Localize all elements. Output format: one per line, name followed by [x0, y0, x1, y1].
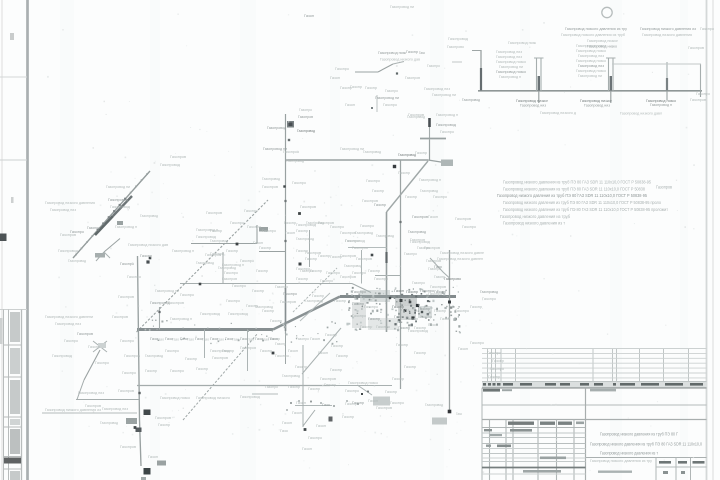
stamp cell dark: [4, 458, 21, 464]
svg-text:Газопровод низ: Газопровод низ: [578, 64, 604, 68]
mid row label left2: [502, 389, 512, 391]
svg-text:Газопр: Газопр: [434, 275, 445, 279]
svg-text:Газопро: Газопро: [275, 285, 288, 289]
H385 east: [330, 385, 392, 387]
svg-text:Газопровод н: Газопровод н: [115, 225, 137, 229]
branch line c: [393, 62, 404, 65]
bottom tail diag: [303, 410, 315, 426]
svg-text:Газопровод: Газопровод: [218, 266, 237, 270]
margin mark mid: [11, 197, 14, 203]
svg-text:Газопро: Газопро: [490, 367, 504, 371]
left margin edge line: [1, 0, 3, 480]
svg-text:Газопровод: Газопровод: [296, 237, 315, 241]
tail cluster dots: [361, 393, 363, 395]
svg-text:Газопр: Газопр: [414, 351, 426, 355]
svg-text:Газопровод н: Газопровод н: [419, 178, 441, 182]
svg-text:Газопровод низкого д: Газопровод низкого д: [540, 111, 577, 115]
svg-text:Газопров: Газопров: [340, 231, 356, 235]
svg-text:Газопро: Газопро: [330, 225, 344, 229]
svg-text:Газопро: Газопро: [428, 292, 442, 296]
margin tick y77: [0, 76, 27, 78]
svg-text:Газопровод низкого давления из: Газопровод низкого давления из труб ПЭ 8…: [503, 200, 661, 205]
svg-text:Газопровод низко: Газопровод низко: [160, 396, 190, 400]
svg-text:Газопровод: Газопровод: [296, 223, 317, 227]
svg-text:Газоп: Газоп: [304, 14, 314, 18]
svg-text:Газопро: Газопро: [299, 108, 312, 112]
svg-text:Газопро: Газопро: [87, 226, 100, 230]
node V1c: [299, 263, 302, 266]
bottom band mark 7: [357, 403, 359, 405]
V449 riser: [449, 250, 451, 412]
svg-text:Газопр: Газопр: [305, 257, 317, 261]
V223 stub: [222, 252, 224, 284]
svg-text:Газопровод: Газопровод: [68, 259, 87, 263]
svg-text:Газопровод низкого давления из: Газопровод низкого давления из: [640, 27, 696, 31]
svg-text:Газопровод: Газопровод: [480, 290, 499, 294]
svg-text:Газопровод н: Газопровод н: [499, 75, 521, 79]
svg-text:Газопро: Газопро: [262, 229, 276, 233]
margin mark top: [10, 33, 14, 40]
svg-text:Газопр: Газопр: [406, 290, 418, 294]
svg-text:Газопр: Газопр: [325, 333, 337, 337]
profile dropper right: [700, 91, 702, 97]
svg-text:Газопровод н: Газопровод н: [436, 113, 458, 117]
svg-text:Газопров: Газопров: [412, 215, 428, 219]
svg-text:Газопро: Газопро: [127, 275, 141, 279]
svg-text:Газопро: Газопро: [335, 67, 349, 71]
title mid rows: [482, 388, 707, 480]
svg-text:Газопровод низко: Газопровод низко: [348, 381, 378, 385]
svg-text:Газопровод: Газопровод: [100, 421, 119, 425]
cluster core boxes: [395, 298, 417, 306]
svg-text:Газопр: Газопр: [492, 359, 504, 363]
H394 stub: [252, 393, 278, 395]
svg-text:Газопровод низ: Газопровод низ: [102, 407, 128, 411]
svg-text:Газопр: Газопр: [145, 369, 157, 373]
network labels: [45, 87, 504, 459]
main riser V3: [386, 212, 388, 332]
main riser V4 west: [138, 256, 142, 466]
svg-text:Газо: Газо: [456, 412, 462, 416]
bottom band mark 4: [320, 402, 322, 404]
svg-text:Газоп: Газоп: [428, 215, 438, 219]
svg-text:Газо: Газо: [187, 338, 194, 342]
svg-text:Газопро: Газопро: [352, 290, 366, 294]
svg-text:Газопровод: Газопровод: [200, 312, 221, 316]
SW diag b: [77, 380, 84, 400]
svg-text:Газопровод низко: Газопровод низко: [576, 44, 606, 48]
svg-text:Газопр: Газопр: [434, 309, 446, 313]
svg-text:Газопровод низко: Газопровод низко: [576, 49, 606, 53]
V1 tick node: [288, 139, 290, 141]
V449 node end: [448, 410, 452, 414]
svg-text:Газопровод: Газопровод: [355, 231, 374, 235]
bottom mid label: [598, 471, 632, 473]
svg-text:Газопровод: Газопровод: [376, 234, 395, 238]
svg-text:Газопровод низког: Газопровод низког: [580, 99, 613, 103]
svg-text:Газо: Газо: [232, 338, 239, 342]
title main grid: [482, 420, 586, 480]
mid row label right: [590, 389, 616, 392]
svg-text:Газопр: Газопр: [185, 357, 197, 361]
stamp cell text 6: [10, 471, 20, 480]
svg-text:Газопров: Газопров: [455, 217, 471, 221]
svg-text:Газопров: Газопров: [426, 259, 441, 263]
V160 stub: [159, 307, 161, 330]
svg-text:Газопровод: Газопровод: [297, 129, 316, 133]
riser x430 upper: [429, 127, 431, 140]
V257 link: [256, 225, 258, 244]
svg-text:Газопровод н: Газопровод н: [650, 103, 672, 107]
svg-text:Газопр: Газопр: [404, 365, 416, 369]
svg-text:Газопро: Газопро: [482, 297, 496, 301]
stamp cell text 1: [10, 312, 20, 342]
svg-text:Газопров: Газопров: [206, 211, 222, 215]
svg-text:Газопров: Газопров: [300, 205, 316, 209]
svg-text:Газопров: Газопров: [77, 332, 93, 336]
profile riser pair B: [608, 58, 610, 91]
V1 top node: [287, 121, 294, 128]
svg-text:Газопровод низкого давления: Газопровод низкого давления: [45, 201, 95, 205]
svg-text:Газопровод низкого давления из: Газопровод низкого давления из т: [503, 221, 566, 226]
svg-text:Газоп: Газоп: [253, 241, 263, 245]
stamp margin smudge: [0, 318, 3, 344]
svg-text:Газопровод низ: Газопровод низ: [496, 55, 522, 59]
profile dropper A: [538, 91, 540, 103]
title header dashes: [508, 422, 584, 425]
svg-text:Газопр: Газопр: [260, 349, 272, 353]
branch node2: [371, 107, 373, 109]
title cell text: [540, 457, 566, 460]
branch line b: [378, 64, 393, 72]
svg-text:Газопро: Газопро: [428, 267, 441, 271]
rail spur node: [146, 260, 149, 263]
svg-text:Газопровод ни: Газопровод ни: [432, 93, 456, 97]
V1 dark segment: [285, 288, 287, 331]
branch riser x430: [429, 140, 431, 160]
svg-text:Газопр: Газопр: [415, 151, 427, 155]
svg-text:Газопров: Газопров: [340, 275, 356, 279]
svg-text:Газопровод низкого давления из: Газопровод низкого давления из труб ПЭ 8…: [503, 180, 651, 185]
svg-text:Газопровод: Газопровод: [448, 37, 469, 41]
svg-text:Газопро: Газопро: [470, 341, 484, 345]
SW box: [98, 343, 106, 348]
svg-text:Газоп: Газоп: [428, 323, 438, 327]
svg-text:Газопро: Газопро: [95, 361, 109, 365]
svg-text:Газопровод низк: Газопровод низк: [378, 51, 406, 55]
svg-text:Газопровод низкого давления из: Газопровод низкого давления из труб: [561, 33, 625, 37]
mid row label left: [483, 389, 500, 392]
diag E: [387, 161, 429, 212]
main riser V1: [285, 114, 287, 334]
stage header dashes: [659, 461, 705, 464]
H247 right: [348, 247, 387, 249]
svg-text:Газопровод низкого давления: Газопровод низкого давления: [642, 33, 692, 37]
svg-text:Газопр: Газопр: [342, 415, 354, 419]
svg-text:Газопр: Газопр: [330, 255, 342, 259]
svg-text:Газопровод: Газопровод: [282, 374, 301, 378]
svg-text:Газопр: Газопр: [368, 317, 380, 321]
profile labels: [390, 5, 714, 116]
margin tick y160: [0, 159, 27, 161]
svg-text:Газопровод низкого давле: Газопровод низкого давле: [440, 251, 484, 255]
svg-text:Газопро: Газопро: [374, 277, 388, 281]
revision header labels: [483, 383, 703, 386]
svg-text:Газопров: Газопров: [298, 115, 313, 119]
rail spur box: [95, 253, 105, 258]
svg-text:Газо: Газо: [270, 337, 278, 341]
svg-text:Газопровод низкого давления из: Газопровод низкого давления из т: [600, 451, 658, 456]
svg-text:Газоп: Газоп: [318, 351, 328, 355]
svg-text:Газопр: Газопр: [246, 304, 258, 308]
svg-text:Газопро: Газопро: [390, 401, 404, 405]
svg-text:Газопровод низкого давл: Газопровод низкого давл: [620, 112, 662, 116]
svg-text:Газопров: Газопров: [262, 185, 278, 189]
svg-text:Газопр: Газопр: [405, 195, 417, 199]
V449 node mid: [448, 301, 451, 304]
node H243: [236, 243, 239, 246]
svg-text:Газопро: Газопро: [275, 354, 289, 358]
svg-text:Газопровод ни: Газопровод ни: [340, 147, 364, 151]
title row2 dashes: [484, 429, 532, 436]
svg-text:Газопр: Газопр: [374, 203, 386, 207]
V160 node: [158, 311, 160, 313]
cluster dark nodes: [134, 254, 424, 429]
svg-text:Газопр: Газопр: [334, 299, 346, 303]
svg-text:Газопровод: Газопровод: [210, 239, 229, 243]
svg-text:Газопров: Газопров: [170, 155, 186, 159]
H275 stub: [375, 275, 401, 277]
svg-text:Газопровод: Газопровод: [140, 214, 159, 218]
svg-text:Газопровод низкого давления из: Газопровод низкого давления из труб ПЭ 8…: [497, 193, 647, 198]
svg-text:Газопр: Газопр: [140, 254, 152, 258]
svg-text:Газопр: Газопр: [372, 189, 384, 193]
V4 node b: [144, 410, 151, 416]
svg-text:Газопр: Газопр: [398, 171, 410, 175]
svg-text:Газопров: Газопров: [60, 233, 76, 237]
bottom band mark 8: [286, 409, 288, 411]
box right mid: [259, 227, 268, 232]
SW cross2: [93, 341, 107, 352]
svg-text:Газоп: Газоп: [285, 231, 295, 235]
svg-text:Газоп: Газоп: [458, 347, 468, 351]
bottom band mark 3: [310, 401, 312, 403]
svg-text:Газопр: Газопр: [252, 289, 264, 293]
V247 dropper: [247, 330, 249, 372]
svg-text:Газопровод н: Газопровод н: [170, 317, 192, 321]
H385 tail diag: [358, 386, 372, 396]
diag A long: [137, 200, 269, 332]
svg-text:Газопро: Газопро: [296, 337, 309, 341]
stamp cell text 2: [10, 348, 20, 374]
H385 line: [137, 385, 330, 387]
bottom tail node: [304, 428, 307, 431]
profile circle marker: [602, 7, 612, 17]
svg-text:Газопр: Газопр: [259, 246, 271, 250]
branch labels: [330, 50, 440, 117]
bottom tail V303: [302, 345, 304, 427]
trunk H160: [286, 159, 429, 161]
stamp cell text 4: [10, 419, 20, 425]
svg-text:Газопр: Газопр: [270, 319, 282, 323]
profile riser pair A: [536, 58, 538, 91]
svg-text:Газопровод: Газопровод: [108, 198, 129, 202]
cluster noise texture: [346, 287, 461, 334]
trunk tick labels: [150, 337, 278, 342]
svg-text:Газоп: Газоп: [368, 399, 378, 403]
node H283: [199, 283, 202, 286]
svg-text:Газопровод низ: Газопровод низ: [496, 50, 522, 54]
svg-text:Газопр: Газопр: [350, 85, 362, 89]
profile riser B dark: [610, 76, 612, 91]
svg-text:Газопровод: Газопровод: [196, 261, 215, 265]
V2 tick: [399, 221, 401, 223]
svg-text:Газопро: Газопро: [320, 279, 333, 283]
svg-text:Газопровод низк: Газопровод низк: [508, 41, 536, 45]
svg-text:Газопро: Газопро: [64, 339, 78, 343]
svg-text:Газопровод низ: Газопровод низ: [424, 87, 450, 91]
svg-text:Газопровод низкого дав: Газопровод низкого дав: [128, 243, 168, 247]
svg-text:Газопр: Газопр: [368, 269, 380, 273]
title row3 dashes: [486, 445, 511, 448]
tail box 2: [432, 418, 447, 425]
svg-text:Газопровод ни: Газопровод ни: [375, 96, 399, 100]
svg-text:Газопровод ни: Газопровод ни: [155, 289, 179, 293]
svg-text:Газоп: Газоп: [148, 455, 158, 459]
svg-text:Газопровод: Газопровод: [110, 205, 131, 209]
svg-text:Газопровод: Газопровод: [262, 177, 281, 181]
profile riser C: [666, 62, 668, 91]
svg-text:Газопр: Газопр: [296, 229, 308, 233]
svg-text:Газоп: Газоп: [296, 401, 306, 405]
V4 end box: [144, 468, 151, 475]
profile right end riser: [700, 64, 702, 91]
svg-text:Газопр: Газопр: [331, 344, 343, 348]
svg-text:Газопровод ни: Газопровод ни: [499, 65, 523, 69]
svg-text:Газопров: Газопров: [280, 300, 296, 304]
bottom tail dark box: [329, 417, 333, 422]
V1 mid node: [283, 185, 285, 187]
svg-text:Газопровод: Газопровод: [228, 312, 249, 316]
leg box right: [157, 461, 166, 466]
riser x430 dark bar: [428, 118, 431, 127]
svg-text:Газопро: Газопро: [366, 179, 380, 183]
node west of V303: [272, 352, 275, 355]
svg-text:Газопровод низкого давления из: Газопровод низкого давления из труб: [500, 214, 570, 219]
V449 approach: [430, 258, 450, 278]
bottom H405: [295, 405, 332, 407]
svg-text:Газопровод: Газопровод: [436, 123, 457, 127]
thick trunk east: [340, 295, 456, 298]
leg dark box: [136, 428, 142, 433]
margin dark blob: [0, 234, 7, 242]
svg-text:Газопр: Газопр: [488, 375, 500, 379]
stamp cell text 5: [10, 429, 20, 454]
bottom band mark 1: [290, 402, 292, 404]
H251 link: [259, 251, 286, 253]
svg-text:Газопровод ни: Газопровод ни: [390, 5, 414, 9]
svg-text:Газопров: Газопров: [112, 315, 128, 319]
svg-text:Газопров: Газопров: [212, 356, 228, 360]
frame right border: [706, 0, 708, 480]
svg-text:Газопро: Газопро: [487, 351, 501, 355]
svg-text:Газопр: Газопр: [365, 86, 377, 90]
svg-text:Газопро: Газопро: [224, 271, 238, 275]
svg-text:Газопро: Газопро: [247, 225, 261, 229]
svg-text:Газопров: Газопров: [118, 295, 134, 299]
svg-text:Газопров: Газопров: [222, 277, 237, 281]
svg-text:Газопр: Газопр: [88, 345, 100, 349]
svg-text:Газопров: Газопров: [352, 246, 368, 250]
SW cross1: [93, 341, 107, 352]
svg-text:Газопр: Газопр: [196, 367, 208, 371]
profile upper line right: [612, 63, 701, 65]
main riser V2: [400, 160, 402, 389]
svg-text:Газопро: Газопро: [308, 436, 322, 440]
svg-text:Газопров: Газопров: [405, 76, 420, 80]
svg-text:Газопров: Газопров: [118, 389, 134, 393]
svg-text:Газопро: Газопро: [352, 314, 366, 318]
svg-text:Газопро: Газопро: [165, 349, 179, 353]
svg-text:Газопр: Газопр: [392, 377, 404, 381]
revision table grid: [482, 349, 707, 480]
svg-text:Газопровод низкого давления из: Газопровод низкого давления из труб ПЭ 8…: [503, 207, 669, 212]
profile left hook: [472, 50, 481, 52]
stage values: [663, 471, 685, 474]
svg-text:Газопро: Газопро: [292, 181, 306, 185]
svg-text:Газопр: Газопр: [226, 249, 238, 253]
svg-text:Газопровод: Газопровод: [52, 354, 73, 358]
svg-text:Газопровод: Газопровод: [408, 329, 429, 333]
svg-text:Газопровод: Газопровод: [408, 230, 427, 234]
svg-text:Газопр: Газопр: [275, 342, 286, 346]
profile dropper C: [666, 91, 668, 100]
railway line: [73, 171, 150, 258]
profile riser left dark: [480, 68, 482, 91]
svg-text:Газопровод низко: Газопровод низко: [576, 69, 606, 73]
svg-text:Газопровод низ: Газопровод низ: [578, 54, 604, 58]
svg-text:Газопро: Газопро: [433, 195, 447, 199]
trunk noise texture: [152, 320, 338, 345]
svg-text:Газопровод н: Газопровод н: [196, 228, 218, 232]
SW H399: [76, 399, 139, 401]
notes text block: [497, 180, 672, 226]
svg-text:Газопр: Газопр: [406, 50, 418, 54]
H243 line: [191, 243, 257, 245]
svg-text:Газопр: Газопр: [418, 307, 430, 311]
bottom band mark 6: [346, 400, 348, 402]
svg-text:Газопровод низкого давления из: Газопровод низкого давления из труб ПЭ 8…: [600, 432, 679, 437]
profile baseline: [478, 90, 702, 92]
cluster west diag 1: [293, 268, 337, 312]
rail spur c: [104, 252, 110, 258]
svg-text:Газоп: Газоп: [316, 424, 326, 428]
bottom band mark 2: [298, 400, 300, 402]
svg-text:Газопр: Газопр: [308, 387, 320, 391]
svg-text:Газопровод низко: Газопровод низко: [496, 60, 526, 64]
svg-text:Газопр: Газопр: [288, 385, 300, 389]
svg-text:Газоп: Газоп: [394, 315, 404, 319]
svg-text:Газопр: Газопр: [392, 305, 404, 309]
rail spur b: [96, 252, 104, 261]
branch drop: [376, 95, 378, 112]
svg-text:Газопро: Газопро: [696, 92, 710, 96]
svg-text:Газо: Газо: [419, 51, 425, 55]
svg-text:Газоп: Газоп: [302, 447, 312, 451]
svg-text:Газопр: Газопр: [420, 315, 432, 319]
trunk H160 tail: [428, 160, 444, 163]
svg-text:Газопр: Газопр: [284, 221, 296, 225]
